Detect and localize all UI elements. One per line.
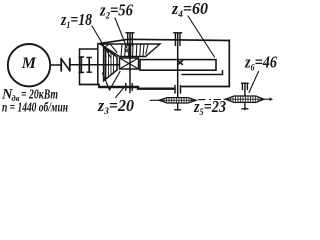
- wire: motor output shaft: [50, 64, 61, 66]
- output arrow after z6: [264, 97, 273, 101]
- label z1=18: [60, 10, 92, 31]
- leader line z4: [188, 16, 215, 57]
- shaft hub through wheel z2: [129, 44, 132, 57]
- svg-text:z2=56: z2=56: [99, 1, 134, 22]
- bevel wheel z2 body: [100, 44, 160, 57]
- shaft of z6 with top bearing: [242, 83, 249, 96]
- shaft stub below z5: [175, 103, 181, 110]
- housing bottom edge right: [182, 86, 229, 88]
- housing inner step shelf: [182, 71, 223, 75]
- pinion z3 (crossed box): [120, 58, 139, 69]
- housing right wall: [228, 40, 230, 86]
- motor M circle: [8, 44, 50, 86]
- leader line z2: [115, 18, 127, 48]
- leader line z1: [92, 26, 111, 58]
- label z4=60: [171, 0, 208, 20]
- label z2=56: [99, 1, 134, 22]
- coupling diagonal: [61, 59, 70, 71]
- bevel pinion z1 top face: [104, 44, 117, 53]
- housing top edge: [98, 39, 230, 44]
- wire: input shaft to gearbox: [70, 64, 119, 66]
- intermediate vertical shaft: [129, 33, 131, 93]
- housing inner left wall: [97, 44, 99, 85]
- label n = 1440 ob/min: [2, 101, 68, 116]
- housing left bearing bracket: [80, 48, 98, 50]
- shaft stub below z6: [242, 102, 248, 109]
- housing left outer wall: [79, 49, 81, 85]
- svg-text:z1=18: z1=18: [60, 10, 92, 31]
- bevel pinion z1 body: [104, 48, 117, 81]
- bearing top of output shaft: [174, 33, 182, 46]
- svg-text:n = 1440 об/мин: n = 1440 об/мин: [2, 101, 68, 116]
- centerline between z5 and z6 (dash-dot): [150, 99, 226, 100]
- label z6=46: [244, 53, 278, 74]
- output vertical shaft: [177, 33, 179, 97]
- bearing bottom of output shaft: [175, 86, 181, 94]
- leader line z3: [116, 88, 125, 98]
- leader line z6: [249, 72, 259, 93]
- coupling (N symbol) left bar: [60, 59, 62, 71]
- bearing top of intermediate shaft: [126, 33, 134, 46]
- label z3=20: [97, 96, 134, 117]
- svg-text:z4=60: z4=60: [171, 0, 208, 20]
- svg-text:M: M: [21, 55, 37, 72]
- node x mark on z4 shaft: [178, 61, 182, 65]
- coupling right bar: [69, 59, 71, 71]
- gear z5 lens: [159, 98, 196, 103]
- svg-text:z3=20: z3=20: [97, 96, 134, 117]
- cone lines under pinion: [103, 72, 121, 91]
- housing bottom ledge left: [80, 85, 100, 88]
- label z5=23: [193, 97, 226, 118]
- svg-text:z5=23: z5=23: [193, 97, 226, 117]
- node x mark on z2: [125, 49, 128, 52]
- gear z6 lens: [226, 96, 265, 102]
- gear wheel z4 (long rectangle): [140, 60, 216, 71]
- bearing B1 on input shaft: [79, 57, 84, 73]
- bearing B2 on input shaft: [87, 58, 91, 73]
- svg-text:z6=46: z6=46: [244, 53, 278, 74]
- label Ndv = 20 kW: [1, 87, 58, 104]
- housing bottom edge mid (thick): [99, 87, 174, 89]
- bearing bottom of intermediate shaft: [126, 84, 132, 91]
